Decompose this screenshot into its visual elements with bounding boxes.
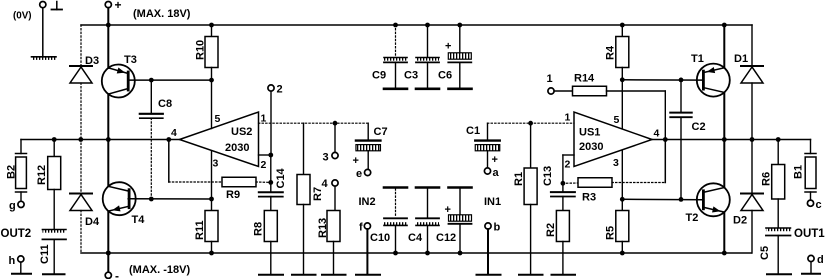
svg-text:R10: R10	[195, 40, 207, 60]
terminal d	[808, 255, 814, 261]
svg-text:IN1: IN1	[484, 196, 501, 208]
wire US2 pin2 bracket	[259, 154, 271, 156]
capacitor C8	[150, 80, 152, 113]
svg-text:5: 5	[614, 114, 620, 126]
node US1 output junction	[664, 140, 666, 183]
capacitor C10	[384, 186, 407, 189]
svg-text:IN2: IN2	[359, 196, 376, 208]
svg-text:+: +	[353, 155, 359, 167]
terminal h	[18, 256, 24, 262]
svg-text:2030: 2030	[225, 142, 249, 154]
resistor R12	[52, 137, 57, 142]
svg-text:R7: R7	[312, 187, 324, 201]
terminal 2	[268, 85, 274, 91]
wire US1 pin5 supply	[621, 80, 623, 128]
wire dotted diode string x=81	[80, 25, 82, 66]
capacitor C12 electrolytic	[449, 186, 472, 189]
svg-text:D1: D1	[734, 53, 748, 65]
capacitor C13	[561, 181, 566, 186]
svg-text:OUT1: OUT1	[794, 228, 825, 240]
resistor R7	[303, 123, 305, 174]
svg-text:T2: T2	[686, 212, 699, 224]
wire T1 base line	[622, 79, 703, 81]
resistor R13	[327, 211, 340, 242]
svg-text:4: 4	[171, 127, 177, 139]
svg-text:C7: C7	[374, 126, 388, 138]
terminal g	[18, 201, 24, 207]
svg-text:D2: D2	[733, 215, 747, 227]
resistor R4	[620, 23, 625, 28]
capacitor C3	[425, 23, 430, 28]
ground stub R8	[259, 274, 283, 276]
svg-text:D4: D4	[85, 216, 100, 228]
svg-text:+: +	[492, 154, 498, 166]
svg-text:h: h	[9, 255, 16, 267]
wire C8 dotted to T4 base	[150, 118, 152, 199]
svg-text:+: +	[445, 204, 451, 216]
terminal b	[485, 223, 491, 229]
capacitor C1	[487, 123, 489, 140]
svg-text:2030: 2030	[579, 141, 603, 153]
wire OUT1 node line right	[652, 139, 811, 141]
svg-text:g: g	[9, 200, 16, 212]
svg-text:3: 3	[323, 152, 329, 164]
wire T3 base line	[128, 79, 211, 81]
svg-text:4: 4	[654, 128, 660, 140]
svg-text:C8: C8	[158, 98, 172, 110]
svg-text:c: c	[816, 199, 822, 211]
svg-text:C4: C4	[408, 232, 423, 244]
svg-text:US1: US1	[579, 126, 600, 138]
wire US1 pin2 bracket	[563, 154, 574, 156]
svg-text:R11: R11	[194, 220, 206, 240]
wire US2 pin1 dotted input line	[259, 122, 369, 124]
transistor T4	[107, 140, 109, 187]
wire T2 base line	[622, 198, 703, 201]
capacitor C4	[416, 186, 439, 189]
op-amp US1	[574, 112, 652, 167]
wire +18V top rail	[81, 24, 752, 26]
capacitor C2	[680, 80, 682, 112]
svg-text:C14: C14	[275, 167, 287, 188]
terminal 3	[332, 152, 338, 158]
svg-text:US2: US2	[231, 126, 252, 138]
resistor R14	[554, 90, 572, 92]
svg-text:2: 2	[277, 84, 283, 96]
capacitor C11	[42, 230, 65, 233]
svg-text:C2: C2	[692, 121, 706, 133]
svg-text:(MAX. 18V): (MAX. 18V)	[133, 8, 191, 20]
ground	[32, 57, 57, 60]
svg-text:R8: R8	[253, 222, 265, 236]
terminal c	[807, 200, 813, 206]
fuse B2	[20, 140, 22, 154]
svg-text:R3: R3	[582, 192, 596, 204]
diode D4	[80, 140, 82, 194]
svg-text:a: a	[493, 167, 500, 179]
svg-text:e: e	[356, 168, 362, 180]
resistor R6	[776, 137, 781, 142]
wire US2 pin3 supply	[211, 151, 213, 199]
svg-text:d: d	[817, 254, 824, 266]
wire dotted feedback to R9	[169, 181, 222, 183]
svg-text:C9: C9	[372, 70, 386, 82]
svg-text:2: 2	[261, 159, 267, 171]
svg-text:C10: C10	[370, 232, 390, 244]
diode D1	[751, 25, 753, 66]
op-amp US2	[180, 112, 259, 167]
svg-text:(0V): (0V)	[13, 11, 32, 22]
svg-text:R14: R14	[574, 73, 595, 85]
transistor T1	[722, 23, 727, 28]
svg-text:C6: C6	[438, 70, 452, 82]
svg-text:C13: C13	[542, 166, 554, 186]
svg-text:-: -	[115, 269, 119, 279]
wire T4 base line	[128, 198, 211, 200]
capacitor C14	[268, 180, 273, 185]
svg-text:3: 3	[613, 157, 619, 169]
capacitor C7	[367, 123, 369, 140]
resistor R5	[621, 199, 623, 210]
svg-text:R9: R9	[226, 189, 240, 201]
diode D2	[751, 140, 753, 194]
svg-text:(MAX. -18V): (MAX. -18V)	[129, 264, 190, 276]
svg-text:R6: R6	[761, 172, 773, 186]
terminal 1	[548, 88, 554, 94]
svg-text:1: 1	[565, 112, 571, 124]
svg-text:T1: T1	[691, 53, 704, 65]
transistor T3	[107, 25, 109, 68]
svg-text:T4: T4	[132, 214, 146, 226]
svg-text:D3: D3	[85, 55, 99, 67]
capacitor C6 electrolytic	[457, 23, 462, 28]
svg-text:R12: R12	[36, 165, 48, 185]
svg-text:R5: R5	[605, 226, 617, 240]
resistor R3	[563, 182, 578, 184]
resistor R9	[222, 177, 256, 187]
wire US1 pin3 supply	[621, 151, 623, 200]
svg-text:R2: R2	[545, 223, 557, 237]
svg-text:C11: C11	[39, 244, 51, 264]
wire -18V bottom rail	[81, 252, 752, 254]
svg-text:3: 3	[213, 158, 219, 170]
resistor R8	[264, 211, 277, 242]
resistor R1	[530, 123, 532, 168]
terminal 4	[332, 180, 338, 186]
terminal 0V	[40, 2, 46, 8]
svg-text:+: +	[445, 41, 451, 53]
svg-text:C5: C5	[759, 246, 771, 260]
terminal f	[364, 223, 370, 229]
svg-text:R13: R13	[317, 218, 329, 238]
resistor R2	[556, 211, 569, 242]
wire US1 pin1 dotted input line	[488, 122, 575, 124]
wire 0V to ground	[42, 8, 44, 57]
svg-text:b: b	[494, 222, 501, 234]
chassis symbol	[56, 2, 58, 10]
node US2 output junction	[166, 137, 171, 142]
terminal +18V	[105, 2, 111, 8]
svg-text:B1: B1	[793, 165, 805, 179]
svg-text:OUT2: OUT2	[1, 228, 32, 240]
svg-text:B2: B2	[6, 165, 18, 179]
resistor R10	[211, 25, 213, 37]
svg-text:5: 5	[215, 113, 221, 125]
resistor R11	[209, 197, 214, 202]
svg-text:C1: C1	[466, 125, 480, 137]
svg-text:2: 2	[565, 159, 571, 171]
wire US2 pin5 supply	[211, 80, 213, 128]
svg-text:+: +	[115, 0, 122, 12]
capacitor C9	[393, 23, 398, 28]
svg-text:R1: R1	[513, 172, 525, 186]
svg-text:C3: C3	[404, 70, 418, 82]
svg-text:T3: T3	[124, 54, 137, 66]
svg-text:1: 1	[547, 73, 553, 85]
svg-text:f: f	[359, 222, 363, 234]
svg-text:C12: C12	[436, 232, 456, 244]
transistor T2	[723, 140, 725, 188]
terminal -18V	[107, 253, 109, 272]
capacitor C5	[766, 228, 791, 231]
fuse B1	[810, 140, 812, 154]
wire OUT2 node line left	[21, 139, 179, 141]
diode D3	[70, 65, 92, 67]
svg-text:R4: R4	[605, 45, 617, 60]
wire dotted feedback R3 to output	[612, 182, 665, 184]
